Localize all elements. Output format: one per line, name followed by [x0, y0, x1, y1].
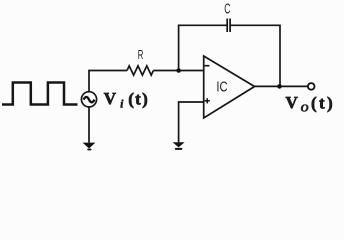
node junction at inverting input — [176, 68, 181, 73]
svg-text:IC: IC — [216, 79, 227, 95]
source V1 circle — [81, 92, 96, 107]
svg-text:R: R — [138, 47, 144, 62]
non-inverting input wire — [179, 102, 204, 142]
capacitor C plates — [226, 19, 228, 33]
output terminal — [308, 83, 315, 90]
ground at op-amp — [173, 142, 185, 147]
op-amp U1 triangle — [204, 56, 255, 118]
svg-text:V: V — [286, 93, 299, 112]
source V1 sine symbol — [84, 97, 95, 102]
ground at source — [83, 143, 96, 149]
svg-text:(t): (t) — [311, 93, 333, 112]
svg-text:V: V — [104, 89, 117, 108]
feedback wire right-down — [230, 25, 280, 86]
wire source top to node — [89, 71, 127, 92]
svg-text:O: O — [301, 103, 309, 115]
op-amp plus sign — [205, 100, 210, 102]
square wave input signal — [2, 83, 78, 105]
output wire — [255, 85, 308, 87]
wire resistor to op-amp inverting input — [153, 70, 203, 72]
svg-text:C: C — [224, 2, 230, 18]
resistor R — [127, 66, 153, 75]
feedback wire up-left — [179, 25, 227, 70]
node junction output — [277, 84, 282, 89]
op-amp minus sign — [205, 65, 210, 67]
svg-text:(t): (t) — [128, 89, 148, 108]
wire source bottom to ground — [88, 107, 90, 143]
